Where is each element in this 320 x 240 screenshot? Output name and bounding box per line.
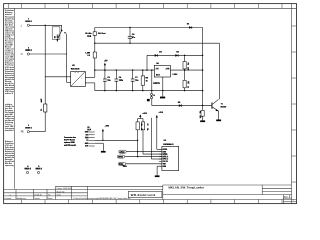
svg-text:PE: PE bbox=[21, 132, 25, 134]
svg-text:1: 1 bbox=[293, 200, 294, 202]
svg-text:1.25V: 1.25V bbox=[172, 74, 178, 76]
svg-text:GPIO1: GPIO1 bbox=[163, 149, 168, 151]
svg-text:2.2: 2.2 bbox=[87, 55, 90, 57]
svg-text:D5: D5 bbox=[178, 102, 180, 104]
svg-text:MKDS 3: MKDS 3 bbox=[25, 50, 31, 52]
svg-text:10k: 10k bbox=[199, 115, 201, 118]
svg-text:+VI: +VI bbox=[155, 68, 158, 70]
svg-text:+3V3: +3V3 bbox=[158, 112, 162, 114]
svg-text:R7: R7 bbox=[146, 124, 148, 126]
svg-text:Bearb: Re: Bearb: Re bbox=[57, 190, 65, 193]
svg-text:CH_PD: CH_PD bbox=[163, 161, 169, 163]
svg-text:R5: R5 bbox=[199, 111, 201, 113]
svg-text:C:\Users\Chris\Documents\eagle: C:\Users\Chris\Documents\eagle\MKLAN\MKL… bbox=[73, 197, 131, 200]
svg-text:MKLAN_SW_TempLuefter: MKLAN_SW_TempLuefter bbox=[169, 186, 205, 190]
svg-text:Zustand: Zustand bbox=[4, 197, 11, 200]
svg-text:GPIO3: GPIO3 bbox=[163, 154, 168, 156]
svg-text:Name: Name bbox=[48, 198, 53, 200]
svg-text:spannung: spannung bbox=[5, 165, 14, 167]
svg-text:OUT: OUT bbox=[85, 146, 88, 148]
svg-text:Ch: Ch bbox=[48, 194, 50, 196]
svg-text:R6: R6 bbox=[140, 124, 142, 126]
svg-text:Datum: Datum bbox=[34, 197, 40, 200]
svg-text:MKDS 3: MKDS 3 bbox=[25, 21, 31, 23]
svg-text:achten. D: achten. D bbox=[5, 92, 14, 95]
svg-text:DCF: DCF bbox=[87, 129, 91, 131]
svg-text:SH. Rect: SH. Rect bbox=[98, 32, 106, 35]
svg-text:GPIO0: GPIO0 bbox=[120, 152, 125, 154]
svg-text:3V3: 3V3 bbox=[85, 135, 88, 137]
svg-text:+3V3: +3V3 bbox=[142, 113, 146, 115]
svg-text:ESP8266-01: ESP8266-01 bbox=[163, 144, 173, 146]
svg-text:D3: D3 bbox=[159, 52, 161, 54]
svg-text:MKDS 3: MKDS 3 bbox=[25, 168, 31, 170]
svg-text:T1: T1 bbox=[221, 104, 223, 106]
svg-text:13.03.16: 13.03.16 bbox=[34, 194, 41, 196]
svg-text:RAC04-05: RAC04-05 bbox=[71, 67, 80, 70]
svg-text:J1: J1 bbox=[153, 95, 155, 97]
svg-text:WD-Elektronik: WD-Elektronik bbox=[131, 193, 156, 197]
svg-text:MKDS 3: MKDS 3 bbox=[36, 168, 42, 170]
svg-text:U3: U3 bbox=[164, 140, 166, 142]
svg-text:GPIO_0: GPIO_0 bbox=[163, 156, 169, 158]
svg-text:Blatt: Blatt bbox=[284, 195, 288, 198]
svg-text:Aenderung: Aenderung bbox=[17, 197, 26, 200]
svg-text:TXD0: TXD0 bbox=[123, 166, 127, 168]
svg-text:Gepr:: Gepr: bbox=[57, 194, 62, 197]
svg-text:150: 150 bbox=[187, 67, 189, 70]
svg-text:10k: 10k bbox=[140, 128, 142, 131]
svg-text:MKDS 3: MKDS 3 bbox=[25, 128, 31, 130]
svg-text:B1A: B1A bbox=[87, 35, 91, 38]
svg-text:GPIO2: GPIO2 bbox=[118, 157, 123, 159]
svg-text:D1: D1 bbox=[187, 24, 189, 26]
svg-text:LM317L: LM317L bbox=[153, 83, 161, 85]
svg-text:Datum: 13.03.2016: Datum: 13.03.2016 bbox=[57, 187, 72, 190]
svg-text:RXD0: RXD0 bbox=[119, 164, 123, 166]
svg-text:F1: F1 bbox=[41, 109, 43, 111]
svg-text:GPIO_2: GPIO_2 bbox=[163, 159, 169, 161]
svg-text:+VO: +VO bbox=[165, 68, 169, 70]
svg-text:R3: R3 bbox=[187, 63, 189, 65]
svg-text:ADJ: ADJ bbox=[156, 73, 160, 76]
svg-text:und RX anschl.: und RX anschl. bbox=[64, 145, 77, 147]
svg-text:BC547: BC547 bbox=[221, 105, 227, 108]
svg-text:+3V3: +3V3 bbox=[105, 126, 109, 128]
svg-text:10k: 10k bbox=[146, 128, 148, 131]
svg-text:U4: U4 bbox=[156, 62, 158, 65]
